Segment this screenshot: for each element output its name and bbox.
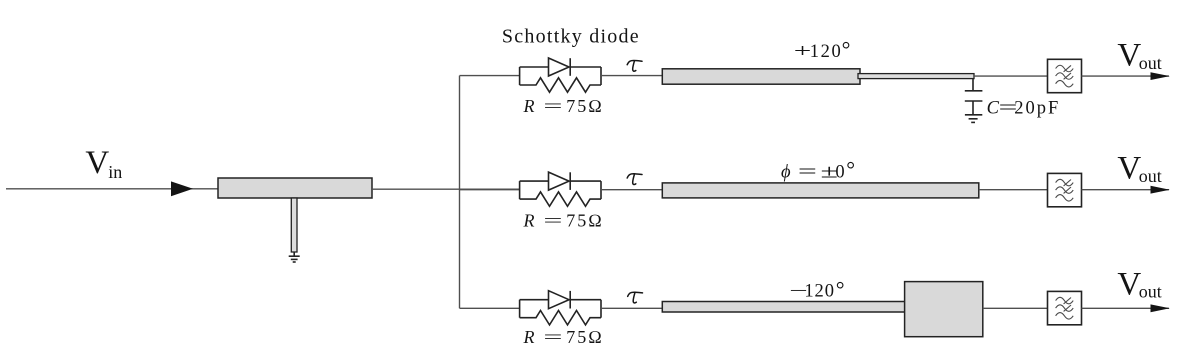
svg-text:120: 120 xyxy=(804,281,834,301)
svg-text:+: + xyxy=(794,42,812,62)
svg-text:R: R xyxy=(523,210,535,230)
svg-text:ϕ: ϕ xyxy=(781,163,791,183)
C=20pF value label xyxy=(987,99,1061,119)
R = 75 ohm label (R2) xyxy=(523,210,604,230)
tau delay label 1 xyxy=(627,61,642,72)
svg-text:120: 120 xyxy=(810,42,843,62)
svg-text:=: = xyxy=(798,163,817,183)
capacitor C1 xyxy=(965,91,983,101)
svg-text:=: = xyxy=(543,96,562,116)
limiter 3 right connector xyxy=(600,300,602,318)
stub ground lead xyxy=(293,252,295,256)
wire input xyxy=(6,188,218,190)
input arrowhead xyxy=(171,181,193,196)
Schottky diode D1 xyxy=(520,58,601,76)
wire limiter 1 to delay line 1 xyxy=(601,75,662,77)
wire line section to filter 3 xyxy=(983,307,1048,309)
wire limiter 3 to delay line 3 xyxy=(601,307,662,309)
output arrowhead 2 xyxy=(1151,186,1170,194)
svg-text:Vin: Vin xyxy=(85,145,122,182)
wire TL2 to filter 2 xyxy=(979,189,1048,191)
svg-text:°: ° xyxy=(842,37,851,62)
svg-text:°: ° xyxy=(836,277,845,302)
svg-text:Schottky diode: Schottky diode xyxy=(502,25,640,47)
thin high-impedance line TL1b xyxy=(858,74,974,79)
ground (stub) xyxy=(289,256,300,262)
R = 75 ohm label (R1) xyxy=(523,96,604,116)
wire splitter to limiter 1 xyxy=(460,75,520,77)
svg-text:Vout: Vout xyxy=(1117,266,1161,302)
transmission line TL1 (+120 deg) xyxy=(662,69,860,84)
wire limiter 2 to delay line 2 xyxy=(601,189,662,191)
svg-text:R: R xyxy=(523,96,535,116)
wire splitter to limiter 2 xyxy=(460,189,520,191)
limiter 2 right connector xyxy=(600,181,602,199)
output arrowhead 3 xyxy=(1151,304,1170,312)
svg-text:=: = xyxy=(543,210,562,230)
wire filter 2 to output xyxy=(1082,189,1170,191)
wire TL1b to filter 1 xyxy=(974,75,1048,77)
limiter 1 left connector xyxy=(519,67,521,85)
wire TL0 to splitter node xyxy=(372,188,520,190)
ground (capacitor C1) xyxy=(965,115,982,123)
svg-text:R: R xyxy=(523,327,535,347)
wire splitter vertical bus xyxy=(459,76,461,309)
Schottky diode D3 xyxy=(520,291,601,309)
limiter 2 left connector xyxy=(519,181,521,199)
transmission line TL0 (input divider line) xyxy=(218,178,372,198)
phi = +/- 0 deg label xyxy=(781,157,855,183)
wide low-impedance line section xyxy=(905,282,983,337)
resistor R3 xyxy=(520,311,601,325)
Schottky diode D2 xyxy=(520,172,601,190)
low-pass filter F2 xyxy=(1048,173,1082,206)
svg-text:°: ° xyxy=(846,157,855,182)
wire splitter to limiter 3 xyxy=(460,307,520,309)
capacitor C1 lower lead xyxy=(972,101,974,114)
limiter 3 left connector xyxy=(519,300,521,318)
open stub below TL0 xyxy=(291,198,297,252)
capacitor C1 upper lead xyxy=(972,79,974,90)
resistor R2 xyxy=(520,192,601,206)
tau delay label 3 xyxy=(628,292,643,303)
transmission line TL2 (0 deg reference) xyxy=(662,183,979,198)
svg-text:Vout: Vout xyxy=(1117,38,1161,74)
svg-text:75Ω: 75Ω xyxy=(566,96,604,116)
+120 deg label xyxy=(794,37,851,62)
svg-text:75Ω: 75Ω xyxy=(566,210,604,230)
wire filter 3 to output xyxy=(1082,307,1170,309)
R = 75 ohm label (R3) xyxy=(523,327,604,347)
wire filter 1 to output xyxy=(1082,75,1170,77)
low-pass filter F1 xyxy=(1048,59,1082,92)
low-pass filter F3 xyxy=(1048,291,1082,324)
svg-text:=: = xyxy=(543,327,562,347)
svg-text:0: 0 xyxy=(835,163,844,183)
svg-text:Vout: Vout xyxy=(1117,150,1161,186)
output arrowhead 1 xyxy=(1151,72,1170,80)
svg-text:20pF: 20pF xyxy=(1014,99,1060,119)
-120 deg label xyxy=(789,277,844,302)
transmission line TL3 (-120 deg) xyxy=(662,302,905,313)
tau delay label 2 xyxy=(627,174,642,185)
svg-text:75Ω: 75Ω xyxy=(566,327,604,347)
limiter 1 right connector xyxy=(600,67,602,85)
resistor R1 xyxy=(520,78,601,92)
